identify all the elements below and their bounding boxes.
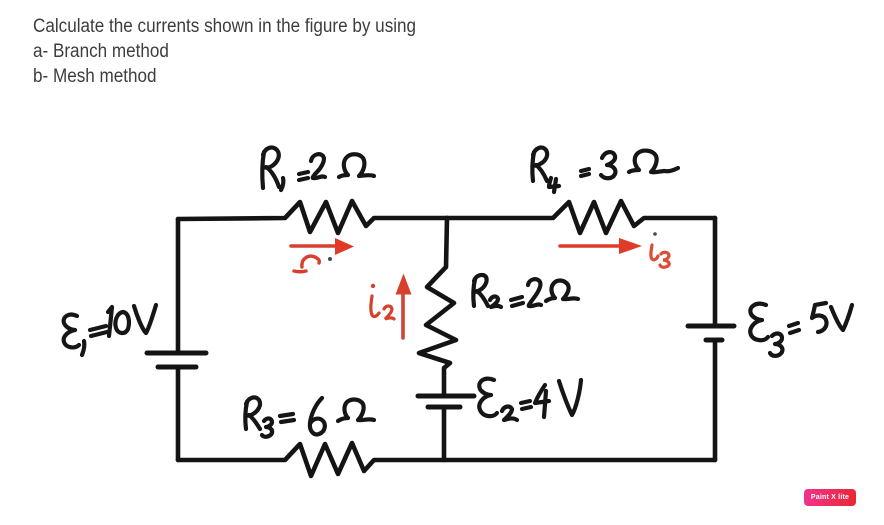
wire left vertical (top segment, node A to battery E1) (176, 219, 181, 353)
label R2 = 2 ohm (473, 275, 578, 307)
label R3 = 6 ohm (245, 397, 374, 436)
battery E2 long plate (418, 394, 474, 399)
label i2 (371, 284, 394, 319)
current arrow i2 (396, 274, 412, 339)
wire middle vertical (battery E2 to bottom wire) (442, 407, 447, 460)
wire right vertical (top corner down to battery E3) (713, 218, 718, 326)
label i3 (651, 232, 669, 267)
label i1 (rotated squiggle) (294, 256, 319, 272)
current arrow i1 (291, 238, 354, 255)
Paint X lite watermark badge (804, 489, 856, 506)
label E3 = 5V (750, 303, 852, 356)
stray ink dot near i1 (328, 257, 332, 261)
label R4 = 3 ohm (532, 148, 678, 192)
battery E3 short plate (706, 338, 722, 343)
label E2 = 4V (479, 379, 581, 420)
battery E1 short plate (158, 365, 196, 370)
wire middle vertical from top junction + resistor R2 zigzag (419, 218, 456, 396)
wire bottom-left + resistor R3 zigzag + wire to bottom-right (178, 443, 715, 476)
battery E1 long plate (147, 351, 206, 356)
battery E2 short plate (428, 405, 460, 410)
current arrow i3 (560, 238, 642, 254)
wire right vertical (battery E3 to bottom-right corner) (713, 340, 718, 460)
problem statement text (33, 14, 416, 89)
wire left vertical (battery E1 to bottom-left corner) (176, 367, 181, 460)
wire top-left horizontal + resistor R1 zigzag + wire to middle junction (178, 201, 447, 233)
wire top middle to R4 + resistor R4 zigzag + wire to top-right corner (447, 201, 715, 233)
label R1 = 2 ohm (262, 148, 374, 190)
battery E3 long plate (688, 324, 734, 329)
label E1 = 10V (64, 305, 156, 355)
